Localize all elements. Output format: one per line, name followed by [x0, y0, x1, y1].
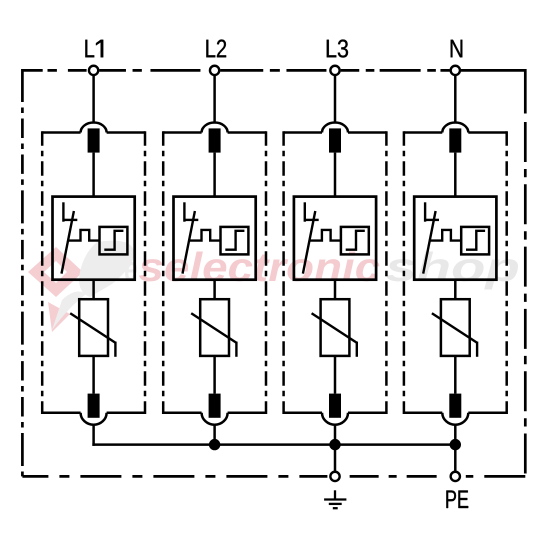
channel 4 dashed module box	[404, 131, 507, 414]
wire N terminal to top plug contact	[454, 75, 457, 123]
wire bottom contact to PE bus channel 2	[213, 425, 216, 445]
wire L1 terminal to top plug contact	[92, 75, 95, 123]
wire varistor to bottom plug contact channel 3	[334, 356, 337, 394]
triggered spark gap channel 1	[53, 197, 135, 280]
wire bottom contact to PE bus channel 3	[334, 425, 337, 445]
enclosure dash-dot border	[22, 69, 525, 476]
earth ground symbol	[324, 490, 346, 508]
junction dot channel 4 on PE bus	[450, 439, 461, 450]
terminal PE	[446, 472, 468, 508]
junction dot channel 2 on PE bus	[209, 439, 220, 450]
wire top contact to spark gap channel 1	[92, 153, 95, 197]
wire spark gap to varistor channel 3	[334, 280, 337, 300]
triggered spark gap channel 4	[414, 197, 496, 280]
varistor channel 2	[191, 299, 236, 357]
wire bus to PE terminal	[454, 445, 457, 472]
plug-in contact top (socket arc + pin) channel 1	[81, 123, 107, 153]
wire bus to ground terminal	[334, 445, 337, 472]
plug-in contact bottom (pin + socket arc) channel 1	[81, 394, 107, 425]
channel 2 dashed module box	[163, 131, 266, 414]
wire varistor to bottom plug contact channel 2	[213, 356, 216, 394]
plug-in contact bottom (pin + socket arc) channel 4	[442, 394, 468, 425]
PE bus wire	[92, 443, 455, 446]
wire spark gap to varistor channel 1	[92, 280, 95, 300]
wire bottom contact to PE bus channel 1	[92, 425, 95, 446]
plug-in contact top (socket arc + pin) channel 4	[442, 123, 468, 153]
triggered spark gap channel 2	[174, 197, 256, 280]
wire top contact to spark gap channel 3	[334, 153, 337, 197]
ground terminal circle	[330, 472, 339, 481]
wire spark gap to varistor channel 2	[213, 280, 216, 300]
channel 3 dashed module box	[284, 131, 387, 414]
wire varistor to bottom plug contact channel 4	[454, 356, 457, 394]
plug-in contact top (socket arc + pin) channel 3	[322, 123, 348, 153]
plug-in contact bottom (pin + socket arc) channel 2	[202, 394, 228, 425]
wire varistor to bottom plug contact channel 1	[92, 356, 95, 394]
plug-in contact bottom (pin + socket arc) channel 3	[322, 394, 348, 425]
terminal L2	[206, 40, 226, 76]
varistor channel 1	[70, 299, 115, 357]
watermark	[28, 241, 518, 332]
wire top contact to spark gap channel 2	[213, 153, 216, 197]
wire L2 terminal to top plug contact	[213, 75, 216, 123]
terminal L1	[85, 40, 103, 75]
wire top contact to spark gap channel 4	[454, 153, 457, 197]
plug-in contact top (socket arc + pin) channel 2	[202, 123, 228, 153]
terminal L3	[327, 40, 348, 76]
varistor channel 4	[432, 299, 477, 357]
wire spark gap to varistor channel 4	[454, 280, 457, 300]
triggered spark gap channel 3	[294, 197, 376, 280]
wire L3 terminal to top plug contact	[334, 75, 337, 123]
terminal N	[451, 40, 463, 75]
junction dot channel 3 on PE bus	[329, 439, 340, 450]
channel 1 dashed module box	[42, 131, 145, 414]
wire bottom contact to PE bus channel 4	[454, 425, 457, 445]
varistor channel 3	[312, 299, 357, 357]
